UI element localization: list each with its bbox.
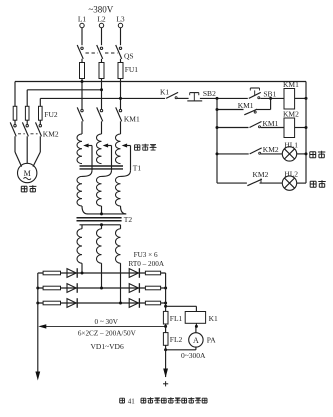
svg-text:T1: T1	[133, 163, 142, 172]
svg-text:KM2: KM2	[253, 170, 269, 179]
svg-text:~380V: ~380V	[88, 5, 113, 15]
svg-text:0 ~ 30V: 0 ~ 30V	[94, 318, 118, 326]
svg-text:KM1: KM1	[283, 80, 299, 89]
svg-text:M: M	[24, 169, 31, 178]
svg-text:0~300A: 0~300A	[181, 351, 206, 360]
svg-text:KM1: KM1	[263, 119, 279, 128]
svg-text:KM2: KM2	[283, 110, 299, 119]
svg-text:FU2: FU2	[44, 110, 58, 119]
svg-text:T2: T2	[124, 215, 133, 224]
svg-text:RT0 – 200A: RT0 – 200A	[129, 260, 165, 268]
svg-text:KM1: KM1	[238, 101, 254, 110]
svg-text:41: 41	[128, 397, 136, 405]
svg-text:PA: PA	[207, 336, 216, 345]
svg-text:FL1: FL1	[170, 314, 183, 323]
svg-text:FL2: FL2	[170, 335, 183, 344]
svg-text:K1: K1	[160, 88, 169, 97]
svg-text:HL1: HL1	[284, 141, 298, 150]
svg-text:L1: L1	[78, 15, 87, 24]
svg-text:6×2CZ – 200A/50V: 6×2CZ – 200A/50V	[78, 329, 137, 337]
svg-text:KM1: KM1	[124, 115, 140, 124]
svg-text:HL2: HL2	[284, 170, 298, 179]
svg-text:QS: QS	[124, 52, 134, 61]
svg-text:FU1: FU1	[125, 65, 139, 74]
svg-text:VD1~VD6: VD1~VD6	[91, 342, 124, 351]
svg-text:L3: L3	[116, 15, 125, 24]
svg-text:L2: L2	[97, 15, 106, 24]
svg-text:SB2: SB2	[203, 89, 216, 98]
svg-text:K1: K1	[209, 314, 218, 323]
svg-text:KM2: KM2	[43, 130, 59, 139]
svg-text:FU3 × 6: FU3 × 6	[134, 251, 158, 259]
svg-text:A: A	[193, 336, 199, 345]
svg-text:KM2: KM2	[263, 145, 279, 154]
svg-text:SB1: SB1	[263, 90, 276, 99]
